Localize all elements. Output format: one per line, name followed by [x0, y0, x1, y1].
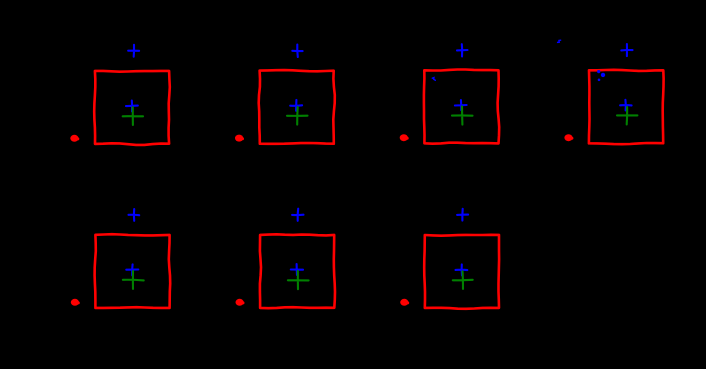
panel 3 red dot: [400, 134, 408, 141]
panel 3 small blue squiggle inside top-left: [432, 78, 435, 81]
panel 1 blue cross inside box: [126, 101, 138, 112]
panel 1 blue cross above box: [128, 45, 139, 57]
panel 4 red dot: [564, 134, 572, 141]
panel 5 blue cross above box: [129, 209, 140, 221]
panel 5 green cross: [123, 271, 144, 289]
panel 7 green cross: [453, 271, 473, 289]
panel 2 green cross: [287, 107, 308, 125]
panel 2 red box: [259, 70, 335, 144]
panel 7 red dot: [400, 299, 408, 306]
panel 3 red box: [424, 70, 499, 144]
panel 1 red box: [94, 71, 170, 145]
panel 2 red dot: [235, 135, 243, 142]
panel 1 red dot: [70, 135, 78, 142]
small blue squiggle above panel 4: [558, 40, 561, 42]
panel 3 blue cross inside box: [455, 100, 467, 110]
panel 1 green cross: [123, 107, 143, 125]
panel 6 green cross: [288, 271, 309, 289]
panel 7 blue cross above box: [457, 209, 468, 221]
panel 4 red box: [589, 70, 664, 144]
panel 3 green cross: [452, 106, 473, 124]
panel 6 blue cross inside box: [291, 264, 303, 275]
panel 6 red dot: [236, 299, 244, 306]
panel 4 blue cross above box: [621, 44, 632, 56]
panel 7 blue cross inside box: [456, 264, 468, 275]
panel 5 red dot: [71, 299, 79, 306]
panel 6 blue cross above box: [292, 209, 303, 221]
panel 2 blue cross inside box: [290, 100, 302, 111]
panel 4 green cross: [617, 107, 637, 124]
panel 5 red box: [95, 234, 171, 308]
panel 3 blue cross above box: [457, 44, 468, 56]
panel 4 blue arc fragments near top edge: [597, 70, 600, 73]
panel 2 blue cross above box: [292, 45, 302, 58]
panel 4 blue cross inside box: [620, 100, 632, 111]
panel 6 red box: [260, 234, 335, 308]
panel 7 red box: [424, 235, 499, 309]
panel 5 blue cross inside box: [126, 264, 138, 275]
